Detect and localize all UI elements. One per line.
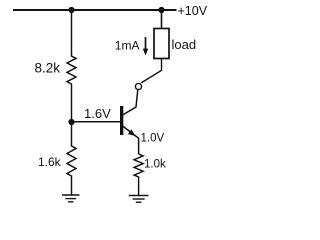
svg-text:1.6V: 1.6V	[84, 106, 111, 121]
svg-text:1.6k: 1.6k	[38, 155, 62, 169]
svg-text:+10V: +10V	[178, 4, 208, 18]
svg-text:1.0V: 1.0V	[141, 133, 165, 145]
svg-text:8.2k: 8.2k	[35, 61, 61, 76]
svg-text:load: load	[172, 37, 197, 52]
svg-text:1mA: 1mA	[115, 38, 140, 52]
svg-text:1.0k: 1.0k	[144, 159, 166, 171]
